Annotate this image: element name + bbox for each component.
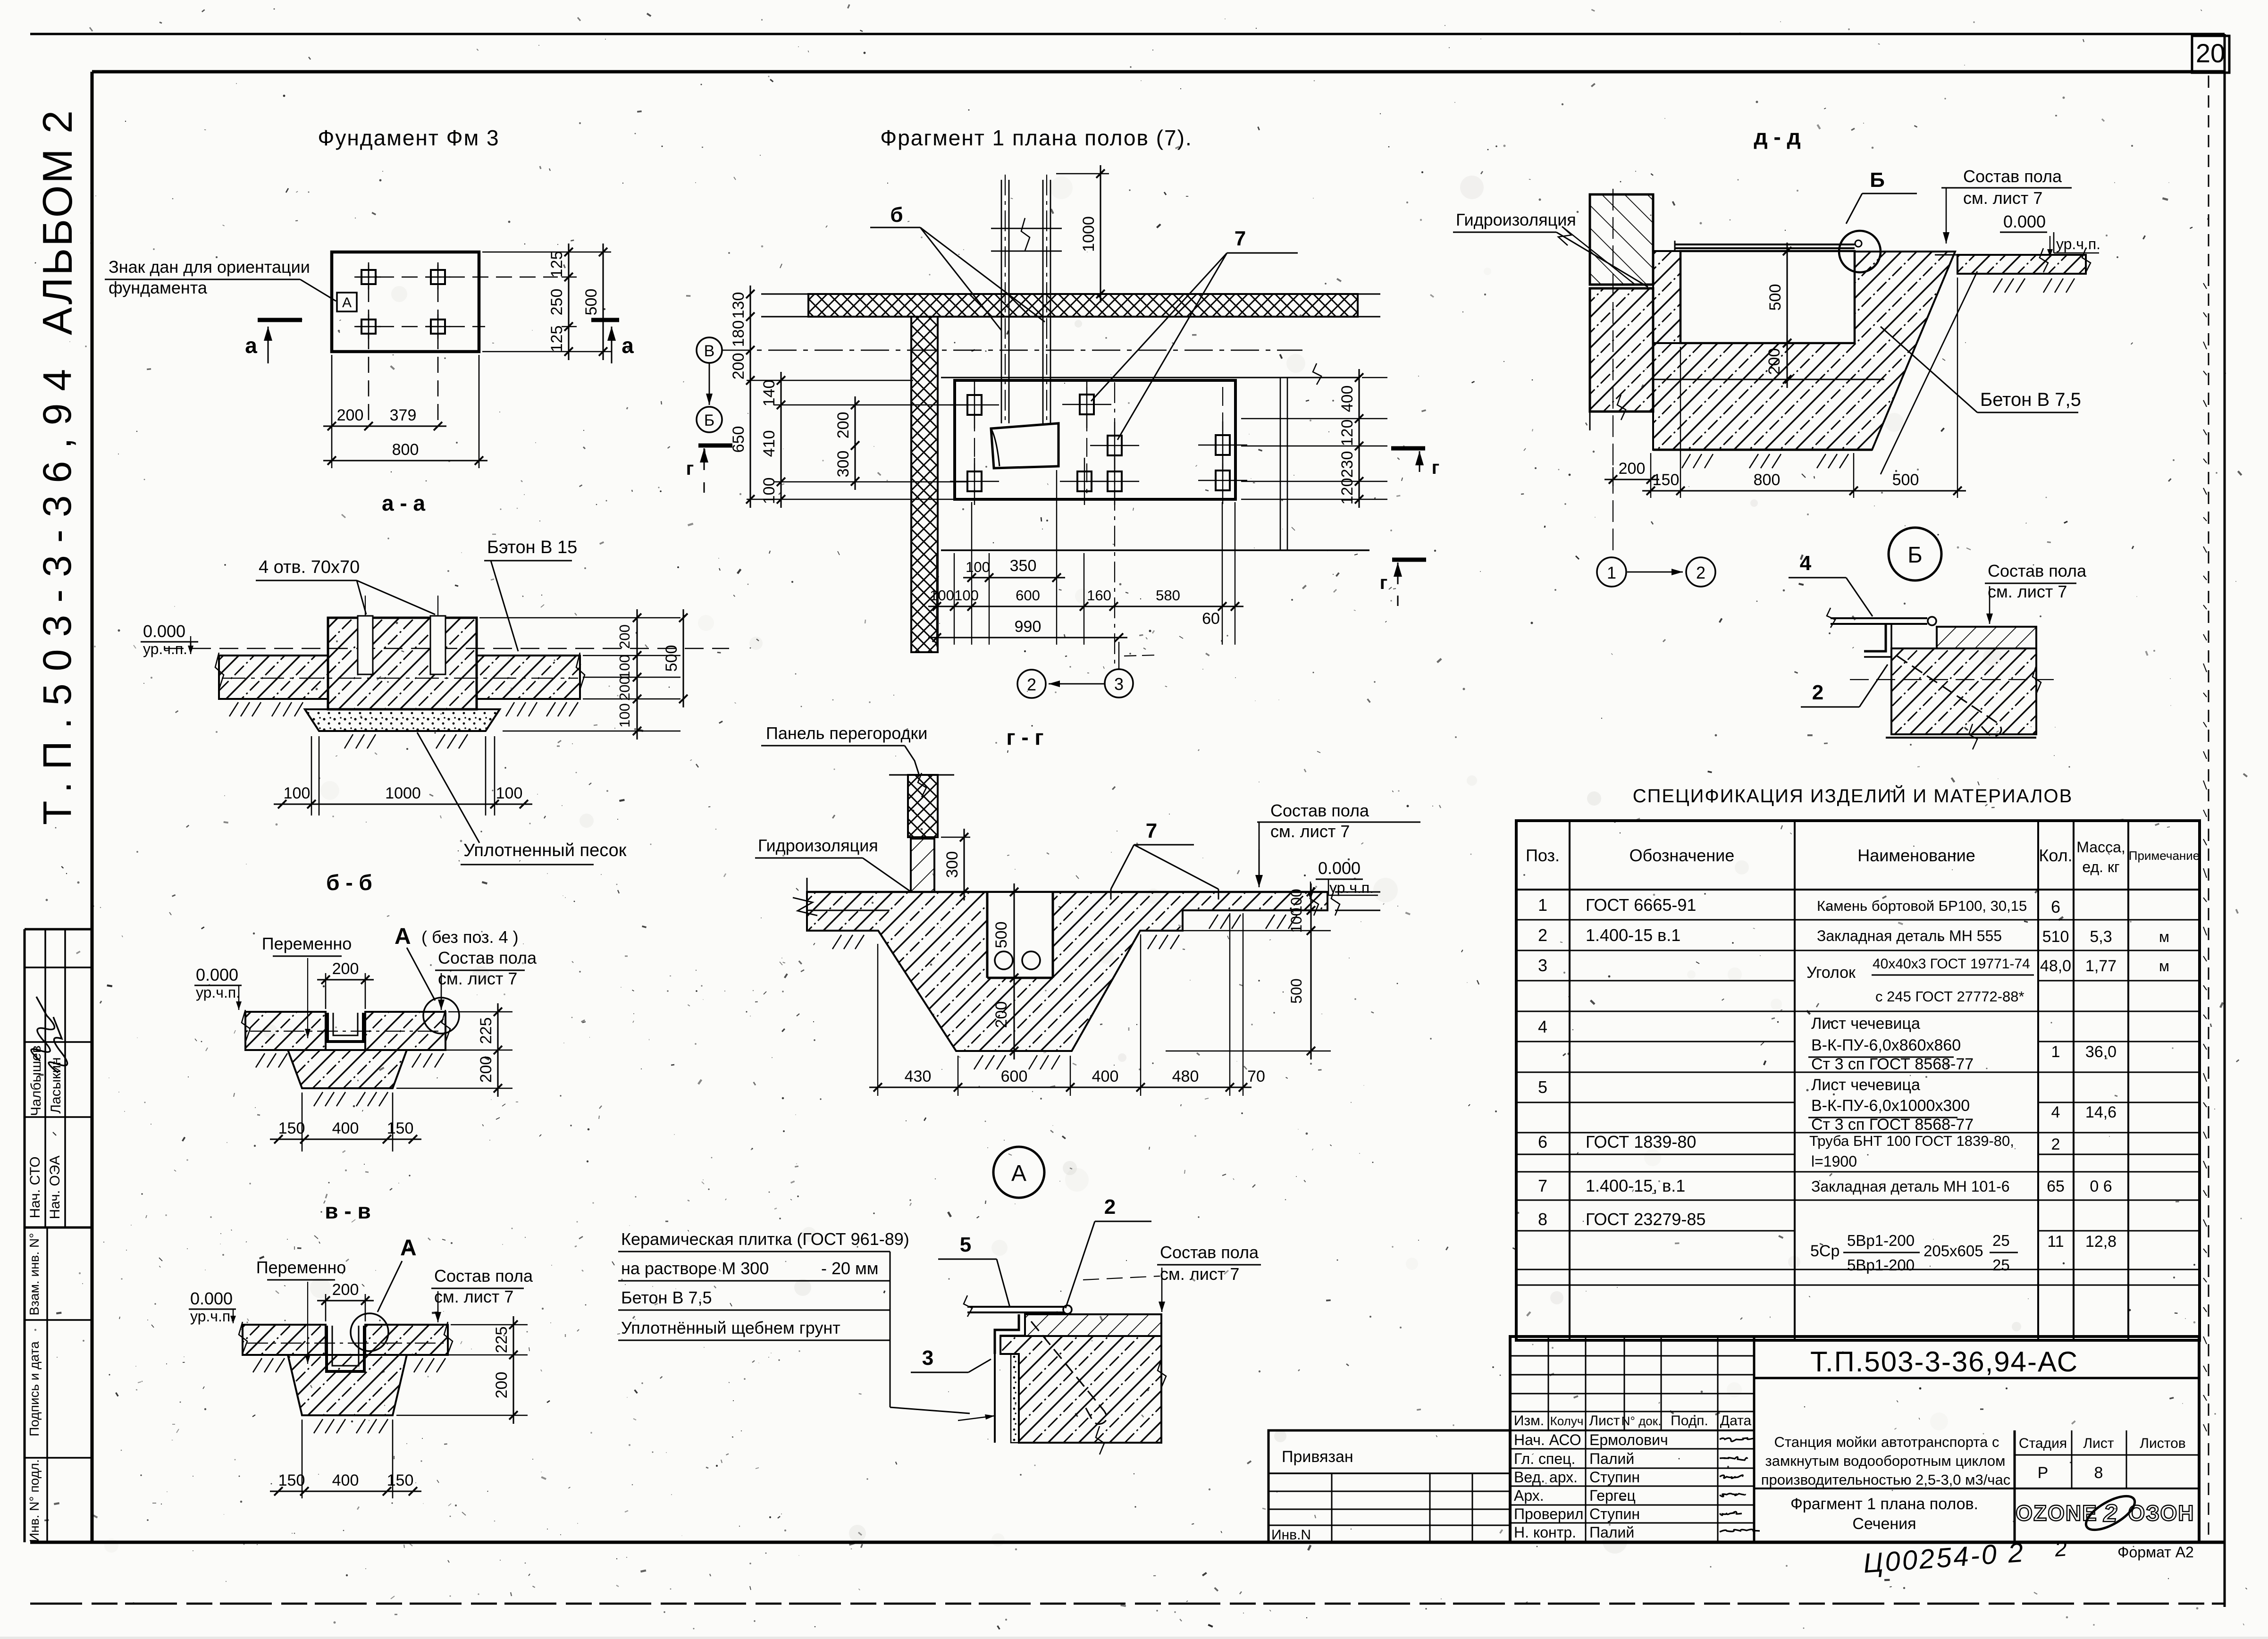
svg-text:130: 130 xyxy=(730,292,748,319)
svg-text:100: 100 xyxy=(1288,908,1305,933)
d-d pit concrete bottom and right mass xyxy=(1653,252,1955,450)
svg-text:100: 100 xyxy=(966,559,990,575)
svg-text:200: 200 xyxy=(493,1372,511,1399)
svg-text:150: 150 xyxy=(387,1471,414,1489)
svg-text:200: 200 xyxy=(616,624,633,649)
svg-text:ГОСТ 23279-85: ГОСТ 23279-85 xyxy=(1586,1210,1705,1229)
b-b break marks xyxy=(242,1010,250,1042)
svg-text:г: г xyxy=(686,458,694,479)
svg-text:120: 120 xyxy=(1338,420,1356,446)
svg-text:б - б: б - б xyxy=(326,870,372,895)
svg-text:Н. контр.: Н. контр. xyxy=(1514,1524,1576,1541)
foundation plan right extension lines xyxy=(482,252,611,253)
svg-text:11: 11 xyxy=(2047,1233,2064,1251)
a-a ground hatch under sand xyxy=(344,734,353,748)
plan bottom extension lines xyxy=(936,553,937,645)
svg-text:Лист чечевица: Лист чечевица xyxy=(1811,1015,1920,1033)
svg-text:60: 60 xyxy=(1202,610,1220,628)
svg-text:Кол.: Кол. xyxy=(2039,846,2072,865)
dim 100 350 row xyxy=(963,577,1065,578)
a-a slab left break mark xyxy=(215,653,224,689)
svg-text:500: 500 xyxy=(1766,284,1784,311)
svg-text:Т.П.503-3-36,94: Т.П.503-3-36,94 xyxy=(35,357,79,825)
svg-text:В-К-ПУ-6,0х860х860: В-К-ПУ-6,0х860х860 xyxy=(1811,1036,1961,1054)
svg-text:Колуч: Колуч xyxy=(1550,1414,1584,1428)
section mark a left xyxy=(258,318,302,322)
v-v bedding trapezoid hatched xyxy=(288,1355,407,1415)
svg-text:см. лист 7: см. лист 7 xyxy=(1963,188,2042,208)
v-v left slab hatched xyxy=(243,1325,326,1355)
detail circle A on b-b xyxy=(423,998,459,1034)
svg-text:м: м xyxy=(2159,958,2169,975)
svg-text:Примечание: Примечание xyxy=(2129,849,2200,863)
svg-text:200: 200 xyxy=(1619,460,1646,478)
stamp privyazan table xyxy=(1268,1430,1510,1542)
d-d wall axis dashed xyxy=(1613,189,1613,557)
detail B break marks xyxy=(2033,665,2041,694)
dim 150 400 150 bottom v-v xyxy=(270,1490,421,1492)
svg-text:Ст 3 сп ГОСТ 8568-77: Ст 3 сп ГОСТ 8568-77 xyxy=(1811,1055,1974,1073)
v-v slab centerline xyxy=(247,1343,444,1344)
svg-text:Нач. АСО: Нач. АСО xyxy=(1514,1431,1581,1448)
svg-text:100: 100 xyxy=(760,478,778,504)
svg-text:480: 480 xyxy=(1172,1067,1199,1085)
svg-text:Бетон В 7,5: Бетон В 7,5 xyxy=(1980,389,2081,410)
stamp small grid columns xyxy=(1548,1336,1549,1430)
b-b bedding trapezoid hatched xyxy=(288,1050,407,1088)
dim 225 200 right of b-b xyxy=(497,1003,498,1097)
svg-text:Уплотненный песок: Уплотненный песок xyxy=(463,841,627,860)
axis circle 1 d-d xyxy=(1597,557,1626,587)
svg-text:а: а xyxy=(622,333,634,358)
plan left extension lines xyxy=(747,380,913,381)
g-g ground hatch xyxy=(974,1055,983,1069)
svg-text:Привязан: Привязан xyxy=(1282,1448,1353,1466)
svg-text:Закладная деталь МН 101-6: Закладная деталь МН 101-6 xyxy=(1811,1178,2010,1195)
svg-text:0.000: 0.000 xyxy=(196,965,238,984)
svg-text:Палий: Палий xyxy=(1589,1450,1634,1467)
svg-text:200: 200 xyxy=(337,406,364,424)
dim 200 100 200 100 right of a-a xyxy=(636,609,638,740)
dim 200 300 near wall xyxy=(854,396,856,490)
level dashed line a-a xyxy=(165,648,729,649)
svg-text:600: 600 xyxy=(1001,1067,1028,1085)
svg-text:180: 180 xyxy=(730,320,748,347)
svg-text:ур.ч.п.: ур.ч.п. xyxy=(196,984,240,1001)
svg-text:Переменно: Переменно xyxy=(262,934,352,953)
svg-text:см. лист 7: см. лист 7 xyxy=(438,969,517,988)
svg-text:см. лист 7: см. лист 7 xyxy=(1160,1264,1239,1284)
svg-text:400: 400 xyxy=(1338,386,1356,412)
svg-text:4: 4 xyxy=(1800,552,1812,575)
svg-text:А: А xyxy=(395,924,411,949)
axis circle B xyxy=(697,407,722,432)
plan embedded trapezoid detail xyxy=(991,423,1058,468)
detail A circle title xyxy=(993,1147,1044,1198)
dim 200 wall axis d-d xyxy=(1613,467,1613,486)
svg-text:Наименование: Наименование xyxy=(1857,846,1975,865)
d-d ground hatch xyxy=(1682,454,1690,468)
svg-text:2: 2 xyxy=(1812,681,1823,704)
svg-text:300: 300 xyxy=(943,851,961,878)
svg-text:500: 500 xyxy=(1288,978,1305,1003)
detail A step angle profile xyxy=(995,1314,1019,1354)
stamp doc number cell xyxy=(1753,1336,1756,1542)
b-b ground hatch xyxy=(314,1092,323,1106)
svg-text:Бэтон В 15: Бэтон В 15 xyxy=(487,538,577,557)
dim 140 410 100 left of plan xyxy=(780,372,781,508)
svg-text:- 20 мм: - 20 мм xyxy=(821,1259,879,1278)
svg-text:Подпись и дата: Подпись и дата xyxy=(27,1341,42,1437)
svg-text:Т.П.503-3-36,94-АС: Т.П.503-3-36,94-АС xyxy=(1810,1346,2078,1378)
svg-text:Чалбышев: Чалбышев xyxy=(28,1045,44,1116)
svg-text:990: 990 xyxy=(1015,618,1042,636)
svg-text:Ступин: Ступин xyxy=(1589,1505,1640,1522)
dim 200 above trench b-b xyxy=(325,973,327,1009)
d-d pit concrete left wall xyxy=(1653,251,1680,343)
dim 200 pit bottom d-d xyxy=(1786,335,1788,388)
foundation plan dashed centerlines xyxy=(354,277,558,278)
svg-text:Палий: Палий xyxy=(1589,1524,1634,1541)
svg-text:фундамента: фундамента xyxy=(109,278,208,297)
v-v peremenno depth line xyxy=(307,1282,308,1364)
svg-text:В-К-ПУ-6,0х1000х300: В-К-ПУ-6,0х1000х300 xyxy=(1811,1097,1970,1115)
svg-text:5Ср: 5Ср xyxy=(1810,1242,1840,1260)
svg-text:125: 125 xyxy=(548,251,566,278)
spec table header row line xyxy=(1516,889,2200,891)
svg-text:д - д: д - д xyxy=(1754,125,1800,149)
svg-text:7: 7 xyxy=(1538,1176,1547,1195)
d-d wall lower part hatched xyxy=(1590,288,1653,412)
svg-text:300: 300 xyxy=(834,451,852,478)
detail circle B on d-d xyxy=(1839,231,1881,272)
svg-text:Поз.: Поз. xyxy=(1526,846,1560,865)
d-d excavation slope second line xyxy=(1881,271,1977,474)
g-g right end break xyxy=(1310,887,1319,916)
svg-text:100: 100 xyxy=(930,587,954,604)
svg-text:379: 379 xyxy=(390,406,417,424)
svg-text:замкнутым водооборотным циклом: замкнутым водооборотным циклом xyxy=(1765,1453,2006,1469)
spec table column lines xyxy=(1569,821,1571,1340)
v-v right extension lines xyxy=(451,1324,528,1326)
a-a foundation pedestal hatched xyxy=(328,618,477,709)
svg-text:Ст 3 сп ГОСТ 8568-77: Ст 3 сп ГОСТ 8568-77 xyxy=(1811,1116,1974,1134)
svg-text:Фрагмент 1 плана полов (7).: Фрагмент 1 плана полов (7). xyxy=(880,126,1192,150)
svg-text:200: 200 xyxy=(1765,348,1783,375)
d-d waterproofing seam xyxy=(1590,284,1653,286)
svg-text:400: 400 xyxy=(332,1471,359,1489)
svg-text:Гергец: Гергец xyxy=(1589,1487,1636,1504)
dim 300 panel height xyxy=(941,837,970,838)
ozone logo xyxy=(2016,1489,2194,1537)
svg-text:25: 25 xyxy=(1992,1232,2010,1249)
svg-text:Гл. спец.: Гл. спец. xyxy=(1514,1450,1575,1467)
detail B circle title xyxy=(1889,528,1941,580)
v-v ground hatch xyxy=(314,1419,323,1433)
d-d wall break diagonal line xyxy=(1562,227,1636,285)
axis line V dash-dot xyxy=(722,350,1302,351)
svg-text:70: 70 xyxy=(1247,1067,1265,1085)
detail B plate xyxy=(1831,617,1927,619)
svg-text:36,0: 36,0 xyxy=(2085,1043,2117,1061)
svg-text:600: 600 xyxy=(1016,587,1040,604)
floor layers bracket line xyxy=(890,1252,891,1407)
svg-text:Лист: Лист xyxy=(2083,1436,2114,1451)
d-d pit inner rectangle xyxy=(1680,251,1855,343)
foundation plan rectangle xyxy=(332,252,479,352)
d-d cover plate xyxy=(1675,244,1855,245)
right inner dashed column line xyxy=(2208,76,2209,1538)
svg-text:Нач. СТО: Нач. СТО xyxy=(27,1157,43,1219)
section mark g right xyxy=(1391,446,1425,451)
svg-text:Стадия: Стадия xyxy=(2019,1436,2067,1451)
detail B level dash line xyxy=(1850,679,2058,680)
stamp outer frame xyxy=(1510,1336,2199,1542)
dim 500 right of a-a xyxy=(682,609,684,707)
svg-text:120: 120 xyxy=(1338,478,1356,505)
svg-text:125: 125 xyxy=(548,326,566,353)
svg-text:б: б xyxy=(890,203,903,227)
svg-text:Гидроизоляция: Гидроизоляция xyxy=(1456,210,1576,229)
svg-text:l=1900: l=1900 xyxy=(1811,1153,1857,1170)
b-b peremenno depth line xyxy=(307,958,308,1038)
svg-text:25: 25 xyxy=(1992,1256,2010,1274)
dim 100 1000 100 bottom of a-a xyxy=(274,803,532,805)
svg-text:производительностью 2,5-3,0 м3: производительностью 2,5-3,0 м3/час xyxy=(1761,1471,2010,1488)
svg-text:0.000: 0.000 xyxy=(190,1289,233,1308)
dim 200 379 bottom xyxy=(323,425,446,427)
b-b left slab hatched xyxy=(245,1012,326,1050)
svg-text:Труба БНТ 100 ГОСТ 1839-80,: Труба БНТ 100 ГОСТ 1839-80, xyxy=(1809,1133,2014,1149)
spec table full row lines xyxy=(1516,919,2200,921)
svg-text:250: 250 xyxy=(548,289,566,316)
svg-text:2: 2 xyxy=(2051,1135,2060,1153)
spec table partial row lines xyxy=(1516,980,1795,982)
svg-text:5Вр1-200: 5Вр1-200 xyxy=(1847,1232,1915,1249)
dim 990 row xyxy=(928,637,1127,638)
svg-text:2: 2 xyxy=(1104,1195,1116,1219)
svg-text:ГОСТ 6665-91: ГОСТ 6665-91 xyxy=(1586,895,1696,915)
svg-text:8: 8 xyxy=(1538,1210,1547,1229)
svg-text:2: 2 xyxy=(1027,675,1036,694)
svg-text:ур.ч.п.: ур.ч.п. xyxy=(2056,235,2100,252)
svg-text:А: А xyxy=(1011,1161,1026,1186)
svg-text:а: а xyxy=(245,333,257,358)
svg-text:Ступин: Ступин xyxy=(1589,1469,1640,1486)
a-a right floor slab hatched xyxy=(477,656,580,699)
svg-text:Инв. N° подл.: Инв. N° подл. xyxy=(27,1459,42,1542)
plan floor upper edge line xyxy=(941,377,1359,378)
d-d slab bottom divider line xyxy=(1653,379,1884,380)
svg-text:Инв.N: Инв.N xyxy=(1271,1527,1311,1543)
plan vertical wall band crosshatched xyxy=(911,317,938,652)
b-b right slab hatched xyxy=(365,1012,445,1050)
svg-text:500: 500 xyxy=(582,289,600,316)
detail A anchor hook dashed xyxy=(1031,1321,1107,1424)
svg-text:Нач. ОЭА: Нач. ОЭА xyxy=(47,1156,63,1219)
detail B concrete hatched xyxy=(1891,648,2036,734)
svg-text:20: 20 xyxy=(2196,38,2225,68)
svg-text:ГОСТ 1839-80: ГОСТ 1839-80 xyxy=(1586,1132,1696,1152)
g-g trench pipes circles xyxy=(995,951,1013,969)
svg-text:3: 3 xyxy=(1538,956,1547,975)
dim 500 vertical xyxy=(602,244,604,360)
sheet outer top edge line xyxy=(30,33,2225,35)
svg-text:1.400-15, в.1: 1.400-15, в.1 xyxy=(1586,1176,1685,1195)
detail B anchor dashed xyxy=(1897,656,2001,736)
plan vertical lines right of pit xyxy=(1280,378,1281,550)
svg-text:Состав пола: Состав пола xyxy=(1160,1243,1259,1262)
svg-text:Б: Б xyxy=(1907,543,1923,568)
stamp stadia list listov xyxy=(2015,1454,2199,1456)
axis arrow 3 to 2 xyxy=(1049,683,1105,685)
stamp signatures xyxy=(1720,1438,1753,1441)
dim 1000 pipes xyxy=(1056,173,1109,175)
svg-text:205х605: 205х605 xyxy=(1924,1242,1983,1260)
svg-text:510: 510 xyxy=(2042,928,2069,946)
svg-text:500: 500 xyxy=(992,922,1010,949)
svg-text:Знак дан для ориентации: Знак дан для ориентации xyxy=(109,257,310,277)
dim 500 200 trench centerline g-g xyxy=(1013,883,1015,1059)
foundation plan anchor bolts xyxy=(361,270,376,284)
svg-text:ур.ч.п.: ур.ч.п. xyxy=(1329,879,1374,896)
svg-text:160: 160 xyxy=(1087,587,1111,604)
svg-text:см. лист 7: см. лист 7 xyxy=(434,1287,513,1306)
axis arrow V to B xyxy=(709,363,710,405)
svg-text:65: 65 xyxy=(2047,1177,2065,1195)
svg-text:Б: Б xyxy=(1870,168,1885,192)
svg-text:350: 350 xyxy=(1010,557,1037,575)
svg-text:200: 200 xyxy=(730,353,748,380)
svg-text:200: 200 xyxy=(616,676,633,701)
stamp project name cell xyxy=(2014,1430,2016,1542)
svg-text:N° док.: N° док. xyxy=(1621,1414,1662,1428)
plan anchor bolts xyxy=(967,395,982,415)
g-g partition panel crosshatched xyxy=(908,775,938,837)
axis circle V xyxy=(697,337,722,363)
svg-text:100: 100 xyxy=(496,784,523,802)
detail B bottom line xyxy=(1886,737,2036,739)
svg-text:А: А xyxy=(342,295,352,311)
svg-text:Уплотнённый щебнем грунт: Уплотнённый щебнем грунт xyxy=(621,1318,840,1337)
dim 400 120 230 120 right of plan xyxy=(1358,369,1360,508)
svg-text:В: В xyxy=(704,342,715,360)
svg-text:Состав пола: Состав пола xyxy=(434,1266,533,1286)
g-g panel base hatched xyxy=(911,839,934,892)
svg-text:200: 200 xyxy=(834,412,852,439)
svg-text:а - а: а - а xyxy=(382,491,425,515)
svg-text:100: 100 xyxy=(616,655,633,679)
svg-text:0.000: 0.000 xyxy=(1318,858,1361,878)
svg-text:7: 7 xyxy=(1235,227,1246,250)
svg-text:Лист: Лист xyxy=(1589,1413,1620,1429)
svg-text:100: 100 xyxy=(954,587,979,604)
svg-text:Подп.: Подп. xyxy=(1671,1413,1708,1429)
axis circle 2 bottom xyxy=(1017,670,1046,698)
svg-text:4: 4 xyxy=(1538,1017,1547,1036)
svg-text:Фундамент Фм 3: Фундамент Фм 3 xyxy=(318,126,499,150)
svg-text:650: 650 xyxy=(730,426,748,453)
svg-text:225: 225 xyxy=(477,1017,495,1044)
axis circle 3 bottom xyxy=(1105,669,1133,698)
svg-text:48,0: 48,0 xyxy=(2040,957,2071,975)
svg-text:см. лист 7: см. лист 7 xyxy=(1988,582,2067,601)
a-a ground hatch right of pit xyxy=(506,702,514,716)
svg-text:230: 230 xyxy=(1338,451,1356,478)
svg-text:Керамическая плитка (ГОСТ 961-: Керамическая плитка (ГОСТ 961-89) xyxy=(621,1229,909,1249)
detail A gravel strip xyxy=(1011,1354,1019,1443)
svg-text:7: 7 xyxy=(1146,819,1157,842)
svg-text:м: м xyxy=(2159,928,2169,945)
left margin staff table xyxy=(25,928,92,931)
v-v trench channel xyxy=(327,1326,364,1371)
handwritten inventory number xyxy=(1862,1534,2068,1579)
detail A hatched concrete xyxy=(1025,1314,1161,1336)
svg-text:500: 500 xyxy=(663,645,680,672)
svg-text:Масса,: Масса, xyxy=(2076,839,2125,856)
svg-text:в - в: в - в xyxy=(325,1199,370,1223)
svg-text:0.000: 0.000 xyxy=(2003,212,2046,231)
svg-text:3: 3 xyxy=(922,1346,933,1370)
svg-text:Камень бортовой БР100, 30,15: Камень бортовой БР100, 30,15 xyxy=(1817,898,2027,914)
b-b trench channel xyxy=(328,1013,363,1042)
axis arrow 1 to 2 xyxy=(1627,572,1683,573)
svg-text:12,8: 12,8 xyxy=(2085,1233,2117,1251)
svg-text:100: 100 xyxy=(616,703,633,728)
d-d wall bottom break xyxy=(1617,395,1626,420)
g-g floor top line xyxy=(807,891,1327,893)
svg-text:200: 200 xyxy=(332,1281,359,1299)
b-b slab centerline xyxy=(250,1031,441,1032)
svg-text:Арх.: Арх. xyxy=(1514,1487,1544,1504)
dim 500 in pit d-d xyxy=(1786,243,1788,352)
svg-text:Листов: Листов xyxy=(2140,1436,2185,1451)
g-g trench box xyxy=(987,893,1053,978)
svg-text:Фрагмент 1 плана полов.: Фрагмент 1 плана полов. xyxy=(1790,1495,1978,1513)
plan lower floor strip line xyxy=(941,549,1369,551)
inner frame of drawing area xyxy=(92,70,2225,74)
svg-text:6: 6 xyxy=(1538,1132,1547,1152)
svg-text:150: 150 xyxy=(387,1119,414,1137)
dim 150 400 150 bottom b-b xyxy=(270,1138,421,1140)
a-a slab right break mark xyxy=(576,653,585,689)
dim 225 200 right of v-v xyxy=(512,1316,514,1424)
svg-text:Формат А2: Формат А2 xyxy=(2117,1544,2194,1561)
svg-text:0.000: 0.000 xyxy=(143,622,185,641)
svg-text:Состав пола: Состав пола xyxy=(1270,801,1369,820)
detail A cover plate xyxy=(967,1306,1064,1308)
svg-text:Панель перегородки: Панель перегородки xyxy=(766,723,927,743)
svg-text:г: г xyxy=(1432,457,1440,478)
svg-text:4 отв. 70x70: 4 отв. 70x70 xyxy=(259,557,360,577)
dim 100 100 600 160 580 row xyxy=(928,605,1243,607)
svg-text:800: 800 xyxy=(392,441,419,459)
d-d right floor slab hatched xyxy=(1957,255,2086,274)
g-g left slab edge lines xyxy=(807,910,890,911)
svg-text:4: 4 xyxy=(2051,1103,2060,1121)
a-a anchor slots xyxy=(358,616,373,674)
svg-text:СПЕЦИФИКАЦИЯ ИЗДЕЛИЙ И МАТЕРИА: СПЕЦИФИКАЦИЯ ИЗДЕЛИЙ И МАТЕРИАЛОВ xyxy=(1633,785,2073,807)
d-d bottom edge line xyxy=(1653,449,1872,451)
svg-text:800: 800 xyxy=(1754,471,1781,489)
svg-text:Лист чечевица: Лист чечевица xyxy=(1811,1076,1920,1094)
svg-text:2: 2 xyxy=(1696,563,1705,582)
svg-text:1.400-15 в.1: 1.400-15 в.1 xyxy=(1586,925,1680,945)
a-a ground hatch left of pit xyxy=(229,702,238,716)
svg-text:40х40х3 ГОСТ 19771-74: 40х40х3 ГОСТ 19771-74 xyxy=(1873,956,2030,972)
svg-text:1,77: 1,77 xyxy=(2085,957,2117,975)
a-a right extension lines xyxy=(479,617,680,619)
